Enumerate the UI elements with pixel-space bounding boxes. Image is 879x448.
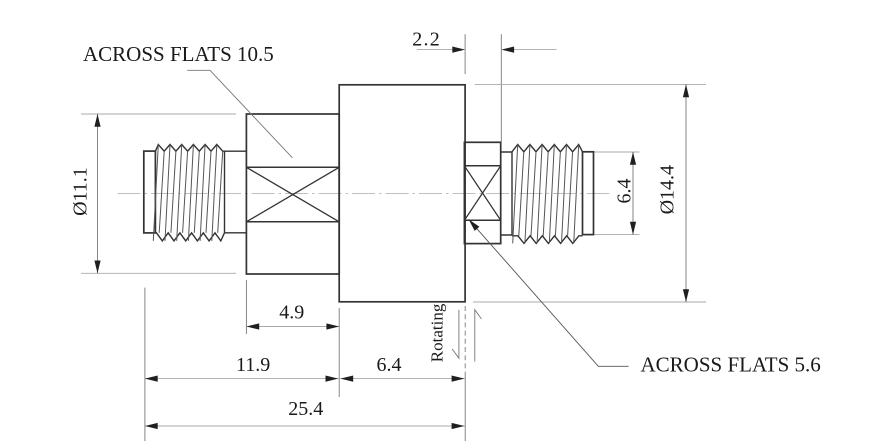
dim 2.2 dimension line left segment with text underline [417,49,453,51]
dim 6.4 bottom dimension line [340,378,465,380]
rotation arrow right line with barb [475,310,482,362]
svg-text:Ø11.1: Ø11.1 [69,167,91,216]
right thread relief section [501,152,512,235]
dim 2.2 dimension line right segment [514,49,557,51]
left hex flat band bottom line [246,221,339,223]
svg-text:11.9: 11.9 [236,354,270,376]
right end cap [583,152,594,235]
dim 6.4 top extension line [595,151,640,153]
svg-text:4.9: 4.9 [279,302,304,324]
svg-text:6.4: 6.4 [614,179,636,204]
svg-text:ACROSS FLATS 10.5: ACROSS FLATS 10.5 [83,42,274,66]
extension line at x=144.9 (left end) [144,288,146,441]
centerline (dash-dot axis) [118,193,613,195]
svg-text:Ø14.4: Ø14.4 [657,165,679,214]
main body [339,85,465,302]
dim 6.4 dimension line [632,152,634,235]
extension line at x=465.3 dashed rotating axis part [464,306,466,374]
right hex flat band top line [464,165,500,167]
svg-text:25.4: 25.4 [288,398,323,420]
leader line for ACROSS FLATS 5.6 with arrowhead [469,219,629,366]
left hex X diagonal 1 [246,167,339,222]
dim Ø11.1 bottom extension line [81,272,236,274]
left hex flat band top line [246,166,339,168]
svg-text:ACROSS FLATS 5.6: ACROSS FLATS 5.6 [641,352,821,376]
left thread [155,145,224,152]
dim Ø14.4 bottom extension line [473,301,706,303]
svg-text:2.2: 2.2 [412,29,441,51]
right thread [512,145,583,152]
left thread relief section [225,151,247,233]
extension line at x=339.2 (hex/body joint) [338,308,340,397]
dim 2.2 extension line left (body right edge) [464,34,466,74]
dim 6.4 bottom extension line [595,234,640,236]
dim Ø14.4 dimension line [685,84,687,302]
rotation arrow left line with barb [452,310,459,359]
dim Ø11.1 top extension line [81,113,236,115]
dim 11.9 dimension line [145,378,339,380]
extension line at x=465.3 solid lower part [464,374,466,441]
dim Ø11.1 dimension line [97,114,99,273]
right hex nut (across flats 5.6) [464,142,500,243]
dim 4.9 dimension line [246,326,339,328]
right hex X diagonal 2 [464,166,500,221]
right hex flat band bottom line [464,219,500,221]
svg-text:Rotating: Rotating [428,303,447,362]
dim 4.9 left extension line [245,280,247,334]
left hex nut (across flats 10.5) [246,114,339,274]
svg-text:6.4: 6.4 [377,354,402,376]
left hex X diagonal 2 [246,167,339,222]
leader line for ACROSS FLATS 10.5 [187,70,292,157]
right hex X diagonal 1 [464,166,500,221]
dim 2.2 extension line right [500,34,502,141]
left end cap [144,151,156,233]
dim Ø14.4 top extension line [475,83,706,85]
dim 25.4 dimension line [145,425,465,427]
